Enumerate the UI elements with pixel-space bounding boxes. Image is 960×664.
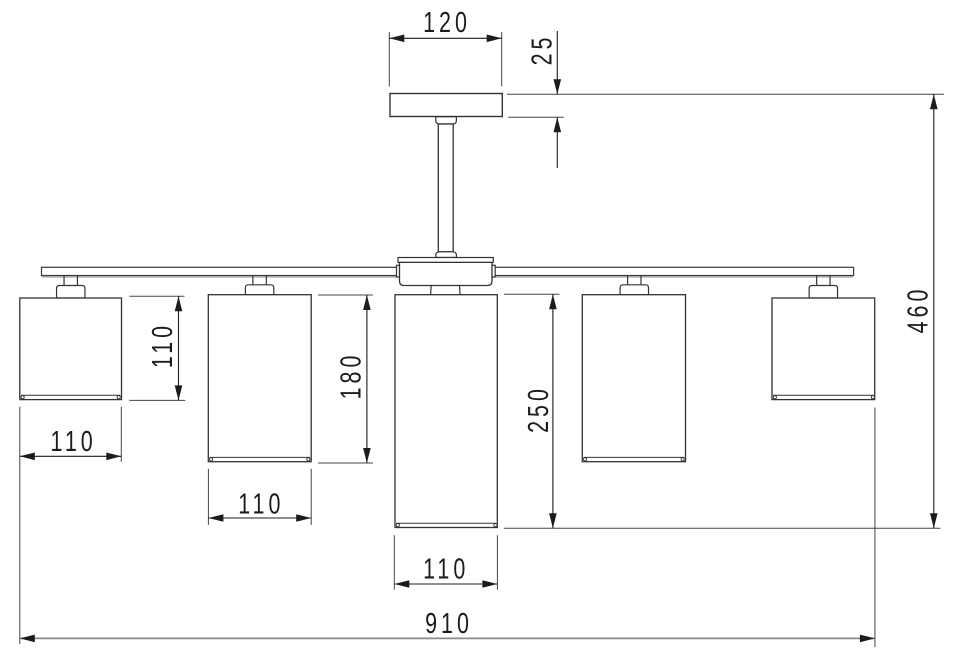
- stem: [438, 124, 453, 252]
- dim 120 text: [423, 7, 471, 39]
- shade 2: [208, 295, 311, 462]
- horizontal bar left segment: [42, 267, 442, 277]
- canopy plate: [390, 94, 502, 117]
- dim 250 line with arrows: [549, 294, 557, 528]
- shade 4: [582, 295, 685, 462]
- svg-text:110: 110: [423, 554, 469, 586]
- holder neck shade 1: [64, 276, 77, 286]
- dim 110 vertical text: [147, 322, 179, 368]
- dim 110 shade3 text: [423, 554, 469, 586]
- dim 180 text: [336, 352, 368, 400]
- dim 110 shade2 text: [238, 488, 284, 520]
- dim 110 shade3 line with arrows: [394, 580, 497, 588]
- shade 5: [772, 298, 875, 400]
- dim 910 line with arrows: [20, 635, 875, 643]
- dim 110 vertical line with arrows: [175, 296, 183, 400]
- dim 180 extension lines: [318, 295, 373, 463]
- svg-text:180: 180: [336, 352, 368, 400]
- top extension line from canopy: [507, 93, 944, 95]
- dim 25 line with arrows: [554, 31, 562, 168]
- stem collar at hub: [436, 252, 457, 258]
- svg-text:110: 110: [238, 488, 284, 520]
- svg-text:120: 120: [423, 7, 471, 39]
- dim 180 line with arrows: [363, 295, 371, 463]
- dim 110 shade1 line with arrows: [20, 453, 122, 461]
- svg-text:250: 250: [523, 385, 555, 433]
- holder cap shade 5: [809, 286, 837, 299]
- dim 110 shade2 line with arrows: [208, 514, 311, 522]
- dim 110 shade3 extension lines: [394, 535, 497, 590]
- dim 910 right extension line: [874, 408, 876, 648]
- central hub body: [397, 262, 496, 285]
- holder neck shade 4: [628, 276, 641, 285]
- dim 120 extension lines: [389, 32, 501, 87]
- dim 110 shade1 extension lines: [20, 407, 122, 644]
- dim 120 line with arrows: [389, 35, 501, 43]
- dim 110 shade2 extension lines: [208, 469, 311, 525]
- svg-text:25: 25: [527, 34, 559, 66]
- shade 3 center: [395, 295, 497, 528]
- dim 25 bottom extension line: [508, 116, 564, 118]
- dim 110 shade1 text: [50, 426, 96, 458]
- horizontal bar right segment: [450, 267, 854, 277]
- holder neck shade 5: [817, 276, 830, 286]
- svg-text:460: 460: [903, 286, 935, 334]
- dim 250 text: [523, 385, 555, 433]
- svg-text:110: 110: [50, 426, 96, 458]
- svg-text:910: 910: [425, 608, 473, 640]
- dim 910 text: [425, 608, 473, 640]
- dim 460 text: [903, 286, 935, 334]
- dim 250 top extension line: [504, 293, 560, 295]
- canopy collar: [436, 117, 457, 124]
- svg-text:110: 110: [147, 322, 179, 368]
- shade 1: [20, 298, 122, 400]
- holder cap shade 4: [620, 285, 648, 295]
- dim 460 line with arrows: [930, 94, 938, 528]
- dim 110 vertical extension lines: [129, 296, 185, 400]
- bottom extension line shared 250 and 460: [504, 527, 941, 529]
- holder cap shade 2: [245, 285, 273, 295]
- dim 25 text: [527, 34, 559, 66]
- central hub top lip: [398, 258, 493, 263]
- holder cap shade 1: [57, 286, 85, 299]
- connector to center shade: [431, 286, 461, 295]
- holder neck shade 2: [253, 276, 266, 285]
